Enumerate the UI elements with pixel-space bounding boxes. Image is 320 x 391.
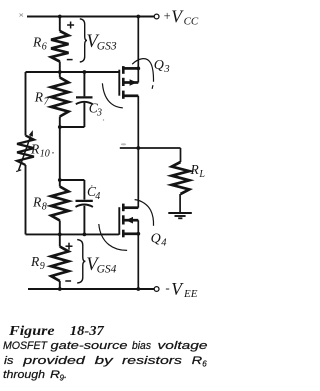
svg-text:voltage: voltage (158, 340, 208, 352)
svg-text:.: . (64, 369, 67, 381)
svg-text:bias: bias (132, 340, 151, 352)
svg-text:resistors: resistors (122, 355, 183, 367)
svg-text:4: 4 (95, 191, 100, 202)
svg-text:through: through (3, 369, 45, 381)
svg-text:gate-source: gate-source (51, 340, 128, 352)
svg-text:V: V (171, 279, 184, 299)
svg-text:Figure: Figure (8, 323, 55, 338)
svg-text:V: V (171, 6, 184, 26)
svg-text:is: is (4, 355, 14, 367)
svg-text:10: 10 (40, 148, 50, 159)
svg-text:4: 4 (161, 238, 167, 249)
svg-text:8: 8 (42, 202, 47, 213)
svg-text:7: 7 (44, 97, 50, 108)
svg-text:EE: EE (183, 288, 198, 300)
svg-text:R: R (30, 254, 40, 269)
svg-text:provided: provided (22, 355, 86, 367)
svg-text:9: 9 (40, 261, 45, 272)
svg-text:+: + (164, 9, 171, 23)
svg-text:GS4: GS4 (97, 263, 117, 275)
svg-text:CC: CC (184, 15, 199, 27)
svg-text:6: 6 (202, 359, 207, 368)
svg-text:R: R (192, 355, 203, 367)
svg-text:6: 6 (42, 41, 47, 52)
svg-text:R: R (30, 142, 40, 157)
svg-text:3: 3 (163, 64, 169, 75)
svg-text:-: - (165, 280, 169, 295)
svg-text:GS3: GS3 (97, 40, 117, 52)
svg-text:Q: Q (154, 58, 164, 73)
svg-text:R: R (32, 34, 42, 49)
svg-text:Q: Q (151, 231, 161, 246)
svg-text:18-37: 18-37 (70, 323, 105, 338)
svg-text:3: 3 (96, 107, 102, 118)
svg-text:by: by (95, 355, 115, 367)
svg-text:MOSFET: MOSFET (3, 340, 48, 352)
svg-text:R: R (32, 195, 42, 210)
svg-text:R: R (34, 90, 44, 105)
svg-text:R: R (190, 162, 200, 177)
svg-text:L: L (198, 169, 205, 180)
